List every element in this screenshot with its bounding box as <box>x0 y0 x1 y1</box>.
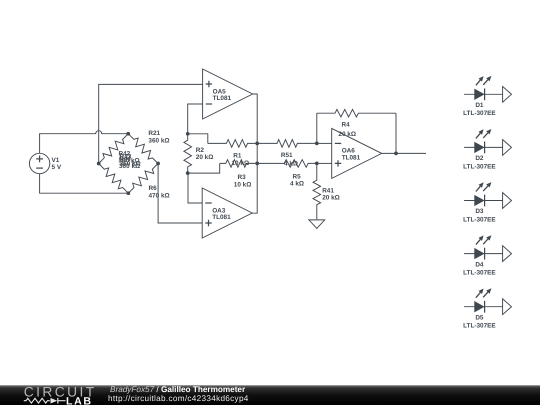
svg-text:20 kΩ: 20 kΩ <box>322 195 340 202</box>
svg-text:BradyFox57 / Galilleo Thermome: BradyFox57 / Galilleo Thermometer <box>110 385 246 394</box>
op-amp OA6 TL081 <box>332 128 382 178</box>
wire row1 to OA6 inverting input <box>317 142 332 144</box>
wire V1 plus to bridge top node (with hop over OA5 wire) <box>40 131 129 154</box>
overlapping value labels of bridge resistors <box>119 151 141 170</box>
svg-text:D3: D3 <box>475 208 484 215</box>
svg-text:D2: D2 <box>475 155 484 162</box>
op-amp OA3 TL081 <box>202 188 252 238</box>
svg-text:R41: R41 <box>322 188 334 195</box>
svg-text:360 kΩ: 360 kΩ <box>148 137 169 144</box>
node A (R2 top, OA5 inverting) <box>186 132 190 136</box>
svg-text:4 kΩ: 4 kΩ <box>290 181 304 188</box>
svg-text:R5: R5 <box>293 173 302 180</box>
node bridge right <box>156 162 160 166</box>
svg-text:LTL-307EE: LTL-307EE <box>463 110 496 117</box>
svg-text:TL081: TL081 <box>213 95 232 102</box>
wire OA6 output <box>382 152 426 154</box>
resistor R3 10 k (row 2 left) <box>188 160 258 189</box>
svg-text:R21: R21 <box>148 130 160 137</box>
svg-text:LTL-307EE: LTL-307EE <box>463 270 496 277</box>
LED D1 LTL-307EE <box>463 76 511 117</box>
svg-text:10 kΩ: 10 kΩ <box>234 181 252 188</box>
svg-text:D4: D4 <box>475 261 484 268</box>
svg-text:R6: R6 <box>149 185 158 192</box>
svg-text:TL081: TL081 <box>342 155 361 162</box>
wire V1 minus to bridge bottom node <box>40 174 129 194</box>
resistor R43 (bridge bottom-left) <box>99 164 129 194</box>
svg-text:R3: R3 <box>238 174 247 181</box>
ground <box>309 220 325 229</box>
svg-text:20 kΩ: 20 kΩ <box>196 154 214 161</box>
svg-text:R1: R1 <box>233 152 242 159</box>
wire bridge right node to OA3 non-inverting input <box>158 164 202 224</box>
node bridge top <box>126 132 130 136</box>
wire OA5 inverting input to node A <box>188 104 203 134</box>
svg-text:http://circuitlab.com/c42334kd: http://circuitlab.com/c42334kd6cyp4 <box>108 394 249 403</box>
footer title text <box>108 385 249 403</box>
svg-text:R51: R51 <box>281 152 293 159</box>
node Y2 (row 2 / OA6 non-inverting / R41) <box>315 162 319 166</box>
svg-text:LAB: LAB <box>66 396 93 405</box>
op-amp OA5 TL081 <box>203 69 253 119</box>
resistor R2 20 k <box>184 134 213 173</box>
svg-text:360 kΩ: 360 kΩ <box>119 163 140 170</box>
svg-text:LTL-307EE: LTL-307EE <box>463 323 496 330</box>
LED D2 LTL-307EE <box>463 129 511 170</box>
resistor R41 20 k <box>313 163 340 219</box>
wire row2 to OA6 non-inverting input <box>317 162 332 164</box>
resistor R6 470 k (bridge bottom-right) <box>128 164 169 200</box>
node X1 (bus / row 1) <box>255 142 259 146</box>
svg-text:TL081: TL081 <box>212 214 231 221</box>
svg-text:LTL-307EE: LTL-307EE <box>463 163 496 170</box>
resistor R1 10 k (row 1 left) <box>188 134 258 167</box>
svg-text:470 kΩ: 470 kΩ <box>149 193 170 200</box>
svg-text:R2: R2 <box>196 147 205 154</box>
svg-text:5 V: 5 V <box>52 164 62 171</box>
node Y1 (row 1 / OA6 inverting / R4) <box>315 142 319 146</box>
node bridge bottom <box>126 191 130 195</box>
wire OA3 inverting input to node B <box>188 173 202 203</box>
node bridge left <box>97 162 101 166</box>
resistor R21 360 k (bridge top-right) <box>128 130 169 164</box>
resistor R51 4 k (row 1 right) <box>257 140 317 168</box>
svg-text:D5: D5 <box>475 314 484 321</box>
resistor R5 4 k (row 2 right) <box>257 160 317 188</box>
resistor R4 20 k (feedback) <box>317 109 396 153</box>
svg-text:V1: V1 <box>52 157 60 164</box>
svg-text:D1: D1 <box>475 102 484 109</box>
node X2 (bus / row 2) <box>255 162 259 166</box>
svg-text:LTL-307EE: LTL-307EE <box>463 216 496 223</box>
node Z (output / R4 feedback) <box>394 152 398 156</box>
resistor R42 (bridge top-left) <box>99 134 129 164</box>
footer bar <box>0 385 540 405</box>
CircuitLab logo <box>24 385 97 405</box>
LED D4 LTL-307EE <box>463 235 511 276</box>
svg-text:20 kΩ: 20 kΩ <box>338 131 356 138</box>
LED D5 LTL-307EE <box>463 288 511 329</box>
node B (R2 bottom, OA3 inverting) <box>186 171 190 175</box>
svg-text:R4: R4 <box>342 122 351 129</box>
voltage source V1 <box>29 153 61 173</box>
LED D3 LTL-307EE <box>463 182 511 223</box>
wire bridge left node to OA5 non-inverting input <box>99 84 203 163</box>
wire OA5 output down bus to OA3 output <box>252 94 257 213</box>
